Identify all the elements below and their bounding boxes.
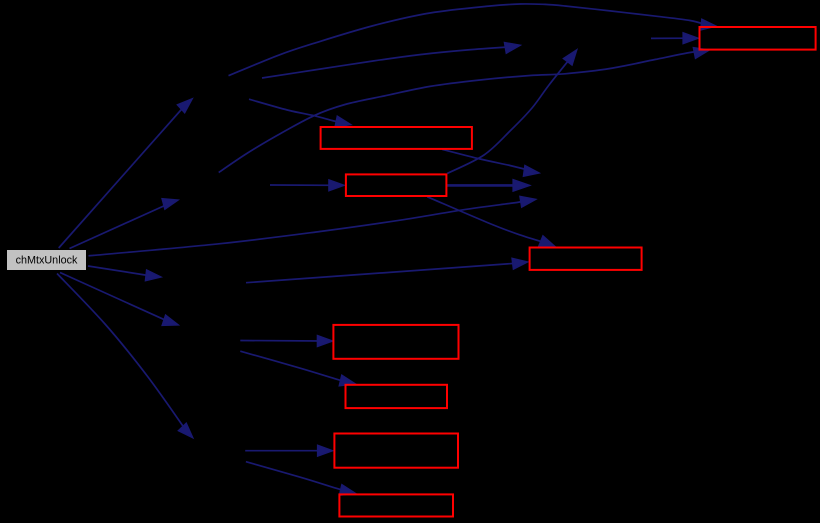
edge hidden node X1 to red box A xyxy=(651,33,699,44)
edge chMtxUnlock to hidden node5 xyxy=(57,274,193,439)
edge red box C to hidden node X1 (steep curve) xyxy=(447,50,577,174)
red box B xyxy=(321,127,472,149)
edge hidden node4 to red box A (middle curve) xyxy=(219,48,710,173)
edge red box C to hidden node X3 xyxy=(447,180,530,192)
edge chMtxUnlock to hidden node1 (hub) xyxy=(59,99,193,249)
edge hub node1 to red box A (top curve) xyxy=(229,4,717,76)
red box G xyxy=(334,434,458,468)
edge chMtxUnlock to hidden node6 xyxy=(60,273,179,326)
red box E xyxy=(333,325,458,359)
edge hidden node7 to red box D xyxy=(246,258,528,283)
red box F xyxy=(346,385,448,408)
red box A (top right) xyxy=(700,27,816,50)
edge hidden node5 to red box G xyxy=(245,445,333,456)
edge hub node1 to red box B xyxy=(249,99,351,127)
edge hub node1 to hidden node X1 xyxy=(262,42,521,78)
edge chMtxUnlock to hidden node4 xyxy=(70,199,179,249)
red box C xyxy=(346,174,447,196)
edge hidden node6 to red box F xyxy=(240,351,355,386)
edge chMtxUnlock to hidden node X3 xyxy=(89,196,537,256)
svg-text:chMtxUnlock: chMtxUnlock xyxy=(16,254,78,266)
red box D xyxy=(530,248,642,270)
edge chMtxUnlock to hidden node7 xyxy=(88,266,161,281)
edge red box C to red box D xyxy=(427,197,555,247)
red box H xyxy=(339,494,453,516)
edge hidden node6 to red box E xyxy=(240,335,332,346)
edge hidden node5 to red box H xyxy=(246,462,356,496)
edge red box B to hidden node X3 xyxy=(442,149,539,176)
node chMtxUnlock (grey box) xyxy=(7,250,87,271)
edge hidden node4 to red box C xyxy=(270,180,344,191)
